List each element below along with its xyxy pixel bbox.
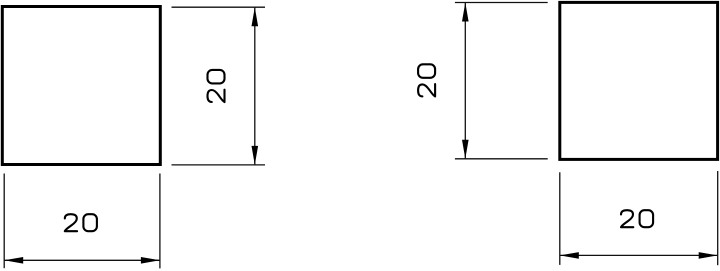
left horizontal dimension arrowhead left bbox=[4, 257, 23, 264]
right square part outline bbox=[560, 2, 718, 159]
right vertical dimension line bbox=[464, 3, 466, 159]
left vertical dimension line bbox=[254, 7, 256, 165]
right vertical dimension extension line bottom bbox=[455, 158, 548, 160]
right vertical dimension arrowhead up bbox=[462, 3, 469, 22]
right vertical dimension label 20 bbox=[418, 64, 435, 96]
left square part outline bbox=[2, 7, 160, 165]
right horizontal dimension extension line right bbox=[717, 171, 719, 265]
left vertical dimension extension line bottom bbox=[172, 164, 266, 166]
left vertical dimension arrowhead down bbox=[252, 146, 259, 165]
left horizontal dimension arrowhead right bbox=[141, 257, 160, 264]
right vertical dimension extension line top bbox=[455, 2, 548, 4]
left vertical dimension arrowhead up bbox=[252, 7, 259, 26]
right vertical dimension arrowhead down bbox=[462, 140, 469, 159]
right horizontal dimension label 20 bbox=[621, 210, 653, 227]
left horizontal dimension extension line left bbox=[3, 174, 5, 269]
left vertical dimension label 20 bbox=[208, 70, 225, 102]
right horizontal dimension extension line left bbox=[559, 172, 561, 265]
left horizontal dimension extension line right bbox=[159, 174, 161, 269]
right horizontal dimension arrowhead right bbox=[699, 252, 718, 259]
left horizontal dimension line bbox=[4, 259, 160, 261]
left vertical dimension extension line top bbox=[172, 6, 266, 8]
right horizontal dimension arrowhead left bbox=[560, 252, 579, 259]
right horizontal dimension line bbox=[560, 254, 718, 256]
left horizontal dimension label 20 bbox=[65, 214, 97, 231]
